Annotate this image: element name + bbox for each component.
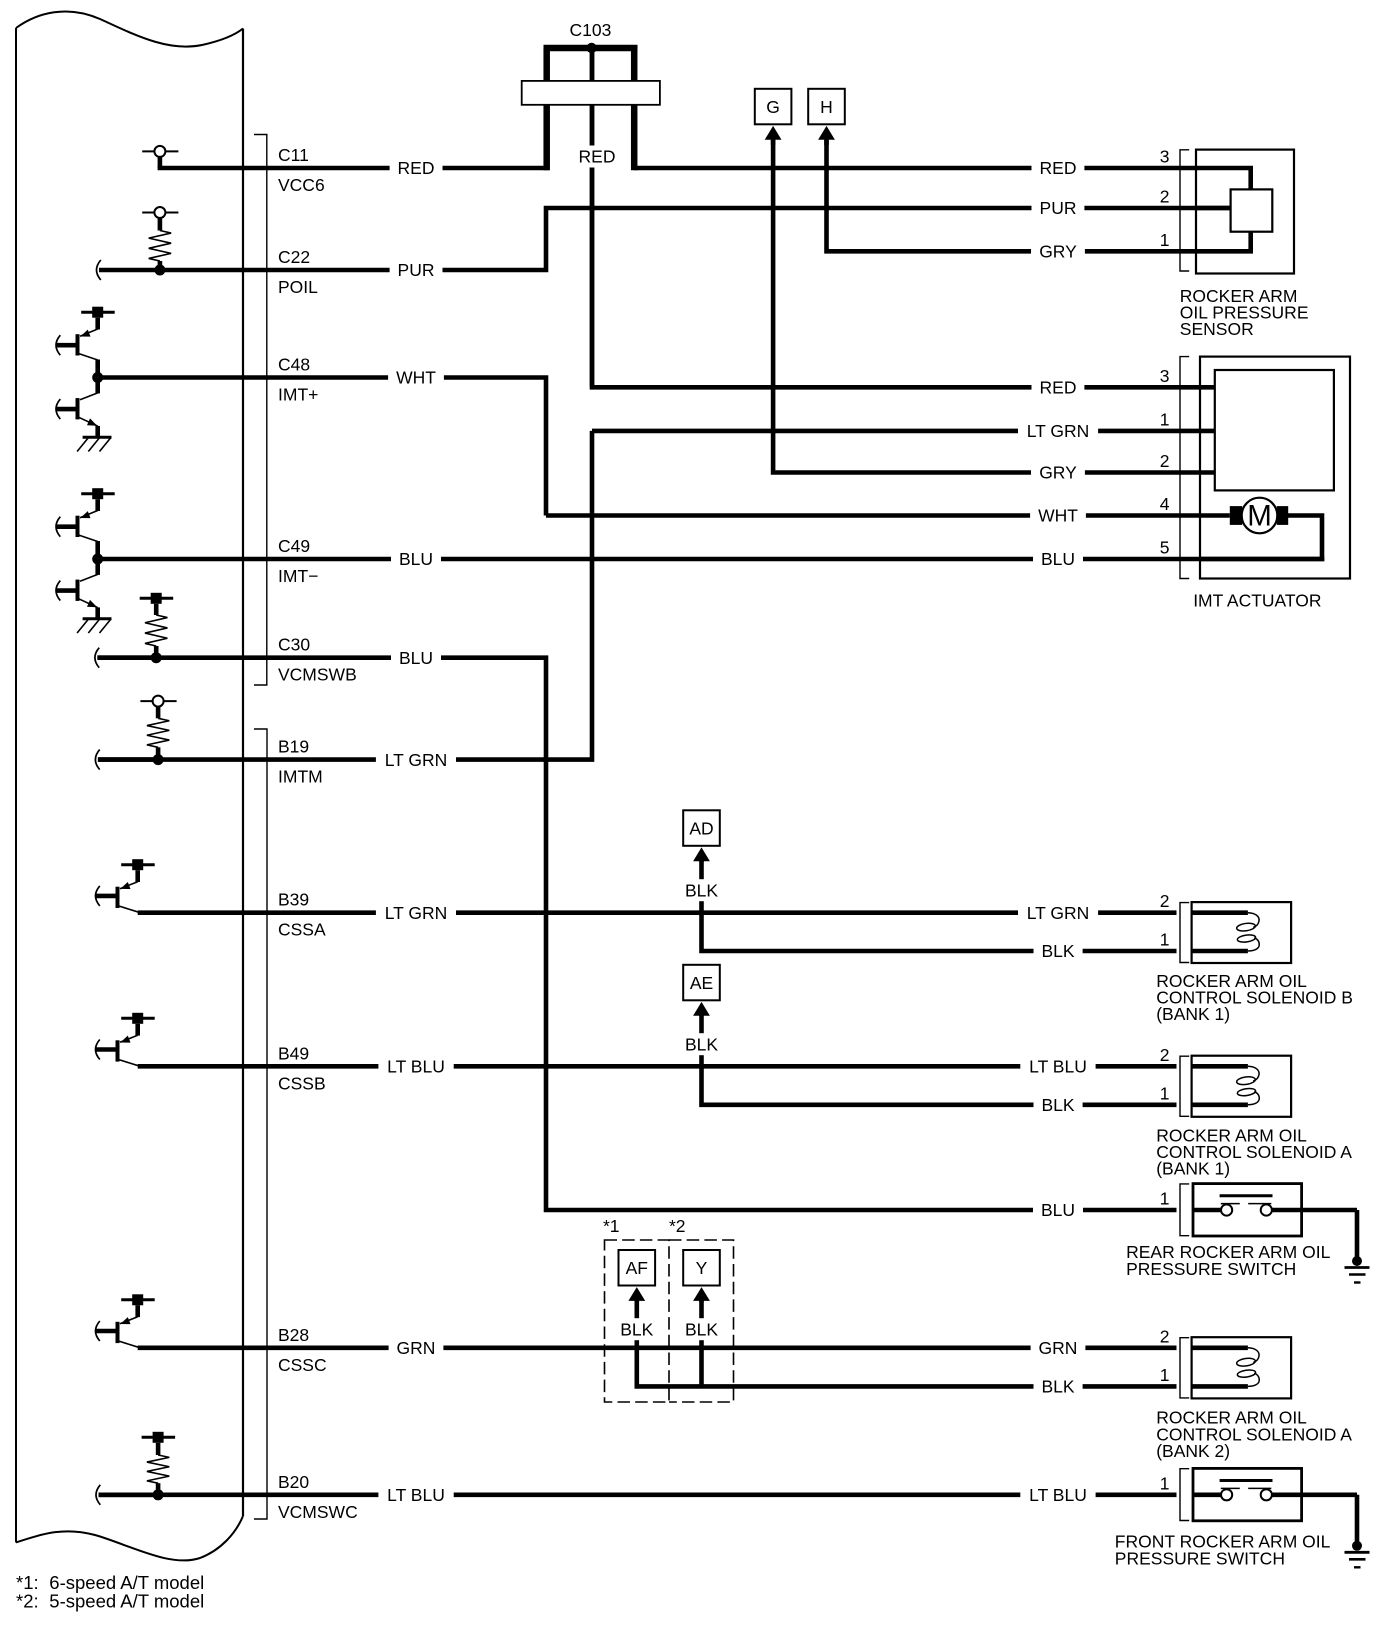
wire label BLK (solenoid A2 pin1) [1034,1375,1083,1397]
wire label BLK (Y) [677,1318,726,1340]
svg-text:BLU: BLU [1041,549,1075,569]
svg-text:3: 3 [1160,147,1170,167]
svg-text:B19: B19 [278,737,309,757]
sensor inner element box [1231,189,1273,231]
wire label LT BLU (B49) [378,1055,453,1077]
svg-text:IMTM: IMTM [278,767,323,787]
svg-text:1: 1 [1160,1189,1170,1209]
wire label LT GRN (B19) [376,749,456,771]
svg-text:GRN: GRN [397,1338,436,1358]
transistor Q-B28 (ECM internal) [121,1298,155,1301]
wire label LT GRN (actuator pin1) [1018,420,1098,442]
svg-text:B39: B39 [278,890,309,910]
svg-text:CSSC: CSSC [278,1355,327,1375]
svg-text:BLK: BLK [620,1319,653,1339]
svg-text:VCMSWB: VCMSWB [278,665,357,685]
rocker arm oil control solenoid A bank1 (coil) [1180,1056,1189,1116]
svg-text:1: 1 [1160,1365,1170,1385]
svg-text:AE: AE [690,973,713,993]
svg-text:2: 2 [1160,451,1170,471]
rear rocker arm oil pressure switch S1 + ground G-rear [1180,1184,1189,1236]
node C49 junction dot [92,554,103,565]
wire label GRY (sensor pin1) [1031,240,1085,262]
wire C30 BLU (ECM to riser down to rear switch) [97,658,1176,1210]
wire label RED (sensor pin3) [1032,157,1085,179]
actuator internal wire (motor to pin5) [1200,516,1322,560]
svg-text:LT BLU: LT BLU [1029,1485,1087,1505]
svg-text:WHT: WHT [1038,506,1078,526]
wire GRY (connector H to sensor pin 1) [827,140,1251,251]
svg-text:LT GRN: LT GRN [385,750,448,770]
node B19 junction dot [153,754,164,765]
broken-wire end B19 row [95,750,99,770]
wire label LT GRN (solenoid B pin2) [1018,902,1098,924]
svg-text:C49: C49 [278,536,310,556]
svg-text:Y: Y [696,1258,708,1278]
wire label WHT (C48) [388,367,444,389]
svg-text:GRY: GRY [1039,242,1077,262]
svg-text:2: 2 [1160,187,1170,207]
node C22 junction dot [154,265,165,276]
node C103 junction dot [586,43,596,53]
wire GRY (connector G to IMT actuator pin 2) [773,140,1215,473]
svg-text:GRY: GRY [1039,463,1077,483]
IMT actuator inner box [1215,370,1334,490]
resistor R-C30 (ECM internal) [154,604,159,615]
dashed option box *2 (5-speed A/T) [669,1240,734,1402]
svg-text:CSSB: CSSB [278,1073,326,1093]
svg-text:(BANK 1): (BANK 1) [1156,1158,1230,1178]
svg-text:BLK: BLK [1041,1095,1074,1115]
svg-text:LT GRN: LT GRN [1027,421,1090,441]
wire label WHT (actuator pin4) [1030,505,1086,527]
ECM pull-up circle for B19 [140,700,176,702]
svg-text:*1: *1 [603,1216,620,1236]
svg-text:IMT−: IMT− [278,566,318,586]
wire label BLK (AE) [677,1033,726,1055]
svg-text:POIL: POIL [278,277,318,297]
broken-wire end C22 row [97,260,101,280]
svg-text:AF: AF [626,1258,648,1278]
wire label GRN (solenoid A2 pin2) [1031,1337,1086,1359]
svg-text:1: 1 [1160,409,1170,429]
wire C11 RED (ECM to C103 left leg) [158,166,549,171]
svg-text:1: 1 [1160,1473,1170,1493]
svg-text:5: 5 [1160,538,1170,558]
ECM connector C bracket [254,135,267,686]
wire label BLK (AD) [677,879,726,901]
svg-text:BLK: BLK [685,880,718,900]
power node square for C30 [140,597,174,600]
connector C103 (inline) [544,45,638,52]
ECM connector B bracket [254,729,267,1519]
svg-text:G: G [766,97,780,117]
svg-text:(BANK 1): (BANK 1) [1156,1004,1230,1024]
svg-text:2: 2 [1160,1326,1170,1346]
wire label GRY (actuator pin2) [1031,462,1085,484]
rocker arm oil control solenoid A bank2 (coil) [1180,1338,1189,1398]
svg-text:H: H [820,97,833,117]
wire label BLU (rear switch pin1) [1033,1199,1083,1221]
connector H (to sheet H) [808,89,845,125]
rocker arm oil control solenoid B bank1 (coil) [1180,903,1189,963]
wire label BLU (C49) [391,548,441,570]
svg-text:C11: C11 [278,145,309,165]
connector AD (ground AD) [683,810,720,846]
svg-text:RED: RED [398,158,435,178]
svg-text:C22: C22 [278,247,310,267]
svg-text:PRESSURE SWITCH: PRESSURE SWITCH [1115,1549,1285,1569]
broken-wire end B20 row [96,1485,100,1505]
ECM/PCM block right edge [242,29,244,1517]
resistor R-B19 (ECM internal) [156,707,161,719]
connector bracket (IMT actuator) [1180,357,1189,579]
motor M1 right brush [1277,506,1288,525]
svg-text:5-speed A/T model: 5-speed A/T model [49,1591,204,1612]
svg-text:B20: B20 [278,1472,309,1492]
svg-text:M: M [1247,500,1272,533]
node B20 junction dot [153,1489,164,1500]
wire RED (C103 to IMT actuator pin 3) [592,48,1215,387]
svg-text:1: 1 [1160,1083,1170,1103]
svg-text:LT GRN: LT GRN [1027,903,1090,923]
front rocker arm oil pressure switch S2 + ground G-front [1180,1469,1189,1521]
svg-text:GRN: GRN [1039,1338,1078,1358]
node C30 junction dot [151,652,162,663]
motor M1 left brush [1230,506,1242,525]
wire label BLK (AF) [612,1318,661,1340]
wire B20 LT BLU (ECM to front switch) [99,1493,1177,1498]
svg-text:PRESSURE SWITCH: PRESSURE SWITCH [1126,1259,1296,1279]
svg-text:VCMSWC: VCMSWC [278,1502,358,1522]
rocker arm oil pressure sensor U-sensor box [1196,150,1294,274]
wire C49 BLU (ECM to IMT actuator pin 5) [98,557,1325,562]
svg-text:LT BLU: LT BLU [387,1485,445,1505]
svg-text:*2: *2 [669,1216,686,1236]
resistor R-B20 (ECM internal) [156,1443,161,1455]
wire label LT BLU (front switch pin1) [1020,1484,1095,1506]
resistor R-C22 (ECM internal) [158,218,163,231]
wire label LT BLU (solenoid A1 pin2) [1020,1055,1095,1077]
wire label BLK (solenoid B pin1) [1034,940,1083,962]
svg-text:2: 2 [1160,891,1170,911]
power node square for B20 [142,1436,176,1439]
wire label PUR (C22) [390,259,443,281]
ECM/PCM block top torn (wavy) edge [16,11,243,46]
svg-text:B49: B49 [278,1043,309,1063]
wire LT GRN (B19 riser to IMT actuator pin 1) [98,431,592,760]
wire label PUR (sensor pin2) [1032,197,1085,219]
svg-text:C103: C103 [569,20,611,40]
connector AE (ground AE) [683,965,720,1001]
svg-text:3: 3 [1160,366,1170,386]
svg-text:IMT+: IMT+ [278,385,318,405]
svg-text:IMT ACTUATOR: IMT ACTUATOR [1193,591,1321,611]
dashed option box *1 (6-speed A/T) [605,1240,670,1402]
wire label GRN (B28) [389,1337,444,1359]
wire label RED (below C103) [571,146,624,168]
broken-wire end C30 row [95,648,99,668]
svg-text:WHT: WHT [396,368,436,388]
wire label LT GRN (B39) [376,902,456,924]
svg-text:RED: RED [579,147,616,167]
svg-text:(BANK 2): (BANK 2) [1156,1441,1230,1461]
wire BLK (connector AD to solenoid B pin 1) [702,861,1177,951]
transistor Q-B49 (ECM internal) [121,1017,155,1020]
svg-text:4: 4 [1160,494,1170,514]
svg-text:LT GRN: LT GRN [385,903,448,923]
transistor pair Q-C49 (ECM internal) [81,492,115,495]
svg-text:BLK: BLK [1041,941,1074,961]
svg-text:1: 1 [1160,230,1170,250]
connector Y (ground Y, 5AT) [683,1250,720,1286]
svg-text:BLK: BLK [685,1319,718,1339]
wire BLK spur from connector Y [699,1301,704,1387]
wire PUR (C22 riser to sensor pin 2) [546,208,1231,268]
wire B49 LT BLU (ECM to solenoid A bank1 pin 2) [138,1064,1177,1069]
ECM pull-up circle for C22 [142,212,178,214]
svg-text:AD: AD [689,818,713,838]
svg-text:PUR: PUR [1040,198,1077,218]
ECM/PCM block bottom torn (wavy) edge [16,1516,243,1560]
wire C22 PUR (ECM to riser) [160,268,548,273]
wire RED (C103 right leg to oil pressure sensor pin 3) [634,166,1253,171]
svg-text:BLK: BLK [1041,1377,1074,1397]
transistor Q-B39 (ECM internal) [121,863,155,866]
wire B39 LT GRN (ECM to solenoid B pin 2) [138,910,1177,915]
sensor pin2 internal wire [1196,206,1231,211]
connector G (to sheet G) [755,89,792,125]
connector AF (ground AF, 6AT) [619,1250,656,1286]
svg-text:B28: B28 [278,1325,309,1345]
transistor pair Q-C48 (ECM internal) [81,311,115,314]
wire label BLU (actuator pin5) [1033,548,1083,570]
svg-text:C30: C30 [278,635,310,655]
connector C103 legs below bar [543,105,550,171]
svg-text:CSSA: CSSA [278,920,326,940]
wire BLK (connector AF to solenoid A bank2 pin 1) [637,1301,1177,1387]
wire B28 GRN (ECM to solenoid A bank2 pin 2) [138,1346,1177,1351]
svg-text:BLU: BLU [1041,1200,1075,1220]
wire BLK (connector AE to solenoid A bank1 pin 1) [702,1015,1177,1105]
wire label LT BLU (B20) [378,1484,453,1506]
wire C48 WHT (ECM to riser) [98,378,546,516]
svg-text:BLU: BLU [399,648,433,668]
svg-text:RED: RED [1040,378,1077,398]
connector C103 body bar [522,81,660,105]
motor M1 circle [1242,498,1278,534]
svg-text:RED: RED [1040,158,1077,178]
wire label BLK (solenoid A1 pin1) [1034,1094,1083,1116]
wire WHT (riser to IMT actuator pin 4) [546,513,1230,518]
ECM/PCM block left torn edge [15,28,17,1542]
svg-text:VCC6: VCC6 [278,175,325,195]
svg-text:*2:: *2: [16,1591,39,1612]
svg-text:BLU: BLU [399,549,433,569]
connector bracket (sensor) [1180,150,1189,271]
svg-text:PUR: PUR [398,260,435,280]
wire label RED (C11) [390,157,443,179]
ECM output node (circle) for C11 [142,150,178,152]
svg-text:1: 1 [1160,930,1170,950]
svg-text:SENSOR: SENSOR [1180,319,1254,339]
wire label BLU (C30) [391,647,441,669]
svg-text:C48: C48 [278,355,310,375]
svg-text:BLK: BLK [685,1034,718,1054]
svg-text:2: 2 [1160,1045,1170,1065]
svg-text:LT BLU: LT BLU [1029,1057,1087,1077]
node C48 junction dot [92,372,103,383]
svg-text:LT BLU: LT BLU [387,1057,445,1077]
wire label RED (actuator pin3) [1032,376,1085,398]
wire LT GRN spur to actuator [592,429,1215,434]
IMT actuator box [1200,357,1350,579]
